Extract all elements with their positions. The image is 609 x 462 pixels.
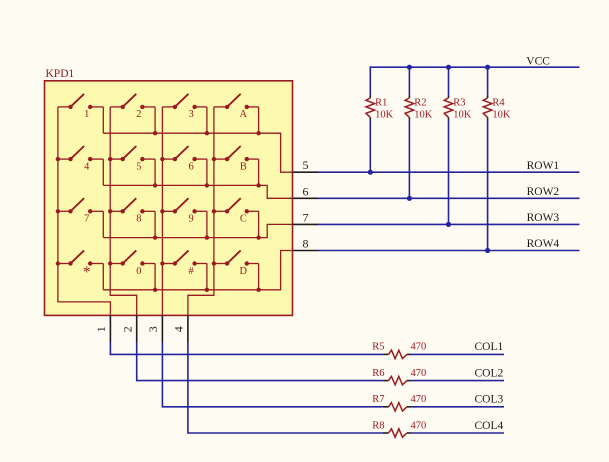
wire pin 3 to R7 <box>162 342 382 407</box>
switch key 1 of KPD1 <box>58 94 103 133</box>
switch key 9 of KPD1 <box>162 198 207 237</box>
svg-text:470: 470 <box>411 420 427 431</box>
svg-text:A: A <box>240 109 248 120</box>
switch key 8 of KPD1 <box>110 198 155 237</box>
pin 6 stub <box>293 197 319 199</box>
junction column 3 row 3 <box>160 209 164 213</box>
resistor R4 pins <box>487 95 489 98</box>
svg-text:#: # <box>188 266 193 277</box>
svg-text:10K: 10K <box>414 109 433 120</box>
junction row 3 col 3 <box>205 235 209 239</box>
junction R4/ROW4 <box>485 248 490 253</box>
junction column 1 row 3 <box>56 209 60 213</box>
junction column 3 row 4 <box>160 261 164 265</box>
switch key 5 of KPD1 <box>110 146 155 185</box>
svg-text:7: 7 <box>84 214 89 225</box>
svg-text:R5: R5 <box>372 342 384 353</box>
wire net ROW2 <box>318 197 580 199</box>
svg-text:R3: R3 <box>453 98 465 109</box>
wire VCC rail <box>370 66 579 68</box>
switch key 0 of KPD1 <box>110 250 155 289</box>
switch key D of KPD1 <box>214 250 259 289</box>
junction VCC / R2 <box>407 65 412 70</box>
junction row 1 col 2 <box>153 131 157 135</box>
wire R1 to ROW1 <box>369 120 371 172</box>
junction column 2 row 4 <box>108 261 112 265</box>
svg-text:C: C <box>240 214 247 225</box>
svg-text:10K: 10K <box>453 109 472 120</box>
svg-text:2: 2 <box>120 326 134 332</box>
resistor R1 <box>366 98 375 118</box>
wire column chain 3 (left contacts keys col 3) <box>161 107 163 316</box>
switch key B of KPD1 <box>214 146 259 185</box>
junction R1/ROW1 <box>368 170 373 175</box>
wire pin 4 to R8 <box>188 342 383 433</box>
junction column 4 row 2 <box>212 157 216 161</box>
wire net ROW4 <box>318 250 580 252</box>
pin 7 stub <box>293 223 319 225</box>
switch key A of KPD1 <box>214 94 259 133</box>
svg-text:D: D <box>240 266 248 277</box>
junction row 3 col 2 <box>153 235 157 239</box>
pin 5 stub <box>293 171 319 173</box>
wire R3 to ROW3 <box>448 120 450 224</box>
svg-text:6: 6 <box>188 161 193 172</box>
resistor R6 <box>389 376 407 384</box>
junction row 1 col 3 <box>205 131 209 135</box>
switch key * of KPD1 <box>58 250 103 289</box>
svg-text:R7: R7 <box>372 394 384 405</box>
svg-text:7: 7 <box>303 210 309 224</box>
svg-text:COL3: COL3 <box>475 394 504 406</box>
svg-text:0: 0 <box>136 266 141 277</box>
resistor R4 <box>483 98 492 118</box>
wire net ROW1 <box>318 171 580 173</box>
svg-text:COL1: COL1 <box>475 341 504 353</box>
pin 3 stub <box>161 315 163 342</box>
junction column 2 row 3 <box>108 209 112 213</box>
svg-text:VCC: VCC <box>526 55 550 67</box>
junction row 2 col 4 <box>256 183 260 187</box>
svg-text:10K: 10K <box>492 109 511 120</box>
pin 2 stub <box>136 315 138 342</box>
junction column 4 row 3 <box>212 209 216 213</box>
svg-text:ROW3: ROW3 <box>527 212 560 224</box>
svg-text:R8: R8 <box>372 420 384 431</box>
svg-text:R6: R6 <box>372 368 384 379</box>
wire column chain 1 (left contacts keys col 1) <box>58 107 111 316</box>
junction column 1 row 2 <box>56 157 60 161</box>
junction column 3 row 2 <box>160 157 164 161</box>
wire R2 to ROW2 <box>408 120 410 198</box>
wire VCC to R2 <box>408 66 410 95</box>
wire row chain 2 (right contacts) to pin 6 <box>103 185 292 198</box>
switch key C of KPD1 <box>214 198 259 237</box>
wire column chain 2 (left contacts keys col 2) <box>110 107 137 316</box>
wire pin 1 to R5 <box>110 342 382 355</box>
svg-text:1: 1 <box>84 109 89 120</box>
wire net ROW3 <box>318 223 580 225</box>
wire row chain 3 (right contacts) to pin 7 <box>103 224 292 237</box>
wire column chain 4 (left contacts keys col 4) <box>188 107 214 316</box>
junction column 4 row 4 <box>212 261 216 265</box>
wire VCC to R4 <box>487 66 489 95</box>
keypad KPD1 body <box>45 81 293 316</box>
wire net COL4 <box>411 432 504 434</box>
wire R4 to ROW4 <box>487 120 489 251</box>
junction R3/ROW3 <box>446 222 451 227</box>
junction row 4 col 2 <box>153 288 157 292</box>
pin 4 stub <box>187 315 189 342</box>
wire net COL2 <box>411 380 504 382</box>
svg-text:2: 2 <box>136 109 141 120</box>
svg-text:ROW2: ROW2 <box>527 186 560 198</box>
wire net COL1 <box>411 353 504 355</box>
resistor R5 <box>389 350 407 358</box>
pin 1 stub <box>109 315 111 342</box>
svg-text:8: 8 <box>303 237 309 251</box>
junction column 2 row 2 <box>108 157 112 161</box>
svg-text:1: 1 <box>94 326 108 332</box>
resistor R8 pins <box>383 432 389 434</box>
switch key 4 of KPD1 <box>58 146 103 185</box>
wire row chain 1 (right contacts) to pin 5 <box>103 133 292 172</box>
svg-text:470: 470 <box>411 394 427 405</box>
switch key # of KPD1 <box>162 250 207 289</box>
wire VCC to R3 <box>448 66 450 95</box>
svg-text:470: 470 <box>411 368 427 379</box>
wire row chain 4 (right contacts) to pin 8 <box>103 251 292 290</box>
junction row 1 col 4 <box>256 131 260 135</box>
switch key 3 of KPD1 <box>162 94 207 133</box>
junction R2/ROW2 <box>407 196 412 201</box>
svg-text:8: 8 <box>136 214 141 225</box>
wire net COL3 <box>411 406 504 408</box>
svg-text:10K: 10K <box>375 109 394 120</box>
resistor R5 pins <box>383 353 389 355</box>
svg-text:ROW1: ROW1 <box>527 160 560 172</box>
svg-text:R1: R1 <box>375 98 387 109</box>
svg-text:9: 9 <box>188 214 193 225</box>
svg-text:470: 470 <box>411 342 427 353</box>
junction row 2 col 3 <box>205 183 209 187</box>
junction VCC / R3 <box>446 65 451 70</box>
resistor R6 pins <box>383 380 389 382</box>
svg-text:3: 3 <box>188 109 193 120</box>
svg-text:3: 3 <box>146 326 160 332</box>
svg-text:4: 4 <box>172 326 186 332</box>
svg-text:B: B <box>240 161 247 172</box>
svg-text:COL4: COL4 <box>475 420 504 432</box>
resistor R7 pins <box>383 406 389 408</box>
switch key 2 of KPD1 <box>110 94 155 133</box>
switch key 7 of KPD1 <box>58 198 103 237</box>
svg-text:COL2: COL2 <box>475 367 504 379</box>
resistor R3 pins <box>448 95 450 98</box>
svg-text:*: * <box>83 264 91 281</box>
switch key 6 of KPD1 <box>162 146 207 185</box>
svg-text:5: 5 <box>303 158 309 172</box>
resistor R1 pins <box>369 95 371 98</box>
resistor R8 <box>389 429 407 437</box>
junction row 2 col 2 <box>153 183 157 187</box>
junction row 3 col 4 <box>256 235 260 239</box>
svg-text:R2: R2 <box>414 98 426 109</box>
junction row 4 col 3 <box>205 288 209 292</box>
wire VCC to R1 <box>369 66 371 95</box>
svg-text:5: 5 <box>136 161 141 172</box>
svg-text:R4: R4 <box>492 98 505 109</box>
junction row 4 col 4 <box>256 288 260 292</box>
resistor R3 <box>444 98 453 118</box>
resistor R7 <box>389 403 407 411</box>
svg-text:4: 4 <box>84 161 90 172</box>
svg-text:6: 6 <box>303 184 309 198</box>
wire pin 2 to R6 <box>137 342 383 381</box>
resistor R2 <box>405 98 414 118</box>
junction VCC / R4 <box>485 65 490 70</box>
svg-text:ROW4: ROW4 <box>527 238 560 250</box>
resistor R2 pins <box>408 95 410 98</box>
svg-text:KPD1: KPD1 <box>46 68 75 80</box>
pin 8 stub <box>293 250 319 252</box>
junction column 1 row 4 <box>56 261 60 265</box>
